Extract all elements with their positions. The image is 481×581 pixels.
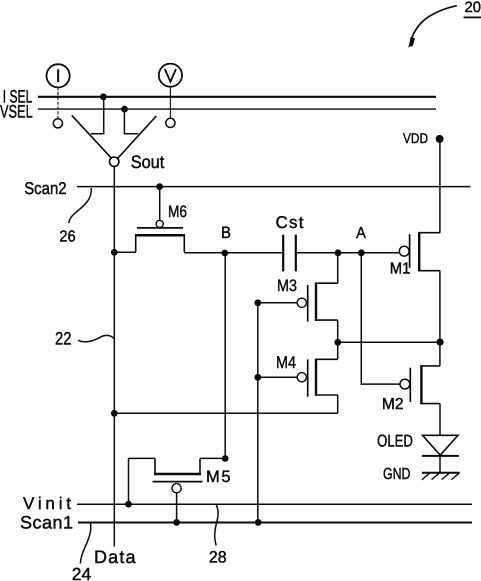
reference numeral 22 with leader [55,328,114,348]
node B [221,224,231,256]
svg-text:Sout: Sout [131,152,165,172]
node junction M3/M4 [334,339,341,346]
wire M3 drain to node [337,320,339,342]
switch contact from ISEL [91,97,104,134]
svg-text:28: 28 [209,549,227,567]
svg-text:VSEL: VSEL [0,102,33,122]
node junction M3 gate [254,299,261,306]
diode OLED [377,432,459,456]
node junction Scan2 / M6 gate [156,183,163,190]
wire Scan2 bus [77,186,471,188]
switch contact from VSEL [124,109,138,134]
voltage probe V [159,64,182,128]
wire M3/M4 gate vertical to Scan1 [257,303,259,523]
wire M6 left to Data line [114,251,135,253]
node Sout [110,152,165,172]
wire Cst junction down to M3 [337,253,339,283]
svg-text:Data: Data [94,547,136,567]
svg-text:VDD: VDD [403,130,428,146]
wire M2 source down to OLED [439,404,441,436]
wire OLED cathode to GND [439,456,441,473]
svg-text:M5: M5 [206,468,231,486]
wire Vinit bus [77,503,472,505]
wire M5 left down to Vinit [128,458,130,504]
svg-text:GND: GND [383,466,411,483]
svg-text:24: 24 [72,564,92,581]
node junction M5 gate / Scan1 [173,519,180,526]
node junction B-vertical / M5 right [222,455,229,462]
transistor M6 [135,187,187,253]
wire bottom horizontal [114,412,337,414]
wire node A to M2 gate [361,253,400,384]
wire node to M4 [337,342,339,359]
svg-text:M4: M4 [276,353,296,372]
node junction drain M1/M2 [437,339,444,346]
wire VDD rail middle [439,271,441,366]
current probe I [47,64,70,128]
node junction M5/Vinit [125,501,132,508]
wire M3/M4 node to M1/M2 drain [338,341,440,343]
svg-text:20: 20 [465,0,481,16]
wire Scan1 bus [78,522,472,524]
switch lever left [72,115,112,158]
svg-text:M6: M6 [168,203,187,221]
reference numeral 20 [464,0,481,17]
wire ISEL bus [38,96,436,98]
svg-text:M1: M1 [390,261,411,278]
transistor M1 [390,233,440,278]
node junction on VSEL [121,106,128,113]
svg-text:26: 26 [59,229,75,246]
switch lever right [118,116,157,158]
svg-text:Scan2: Scan2 [24,179,66,198]
node junction Cst/M3 [335,249,342,256]
node junction Data/M6 [111,249,118,256]
svg-text:OLED: OLED [377,432,413,451]
wire VSEL bus [38,108,436,110]
svg-text:A: A [356,225,366,242]
reference numeral 28 with leader [209,505,227,567]
wire B vertical [224,253,226,458]
svg-text:M2: M2 [382,396,404,413]
wire Data vertical [113,166,115,546]
svg-text:Scan1: Scan1 [20,513,73,533]
transistor M5 [129,458,231,522]
lead arrow to 20 [408,6,457,48]
wire VDD rail upper [439,139,441,233]
wire M4 drain to bottom wire [337,395,339,413]
reference numeral 24 with leader [72,524,92,581]
node VDD terminal [436,135,444,143]
node junction on ISEL [100,93,107,100]
wire M6 right to Cst [184,252,283,254]
transistor M4 [258,353,338,397]
node junction M4 gate [254,374,261,381]
svg-text:Cst: Cst [276,213,304,232]
transistor M2 [382,366,440,413]
svg-text:M3: M3 [277,277,297,295]
node junction Data/bottom wire [111,410,118,417]
leader to 26 [69,188,91,223]
transistor M3 [258,277,338,321]
svg-text:B: B [221,224,231,242]
node junction M3/M4 gate line / Scan1 [255,519,262,526]
svg-text:22: 22 [55,328,71,348]
node A [356,225,366,256]
capacitor Cst [276,213,304,271]
ground GND [383,466,460,483]
wire Cst to M1 gate [296,252,399,254]
